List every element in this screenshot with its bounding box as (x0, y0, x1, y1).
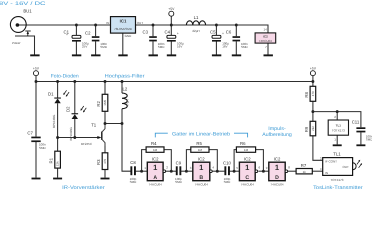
svg-text:C9: C9 (176, 161, 182, 166)
node L2 bottom (121, 122, 124, 125)
node gate D2 (73, 136, 76, 139)
svg-text:C3: C3 (143, 30, 149, 35)
svg-text:Gatter im Linear-Betrieb: Gatter im Linear-Betrieb (172, 131, 230, 137)
svg-text:SMD: SMD (175, 180, 183, 184)
svg-text:1M: 1M (198, 148, 203, 152)
wire R9 branch to TL1 IF-CONT (313, 112, 323, 161)
node TL1 power pin2 (336, 110, 339, 113)
svg-text:OUT: OUT (137, 21, 144, 25)
ground (C2) (91, 54, 100, 56)
ground (C1) (72, 54, 81, 56)
capacitor C7 (27, 130, 46, 149)
resistor R6 (236, 141, 255, 152)
wire gate A feedback R4 (142, 150, 172, 172)
svg-text:TOTX173: TOTX173 (332, 129, 345, 133)
svg-text:8V - 16V / DC: 8V - 16V / DC (0, 1, 46, 7)
svg-text:22k: 22k (56, 161, 60, 166)
wire T1 source to R3 to ground (104, 143, 106, 178)
node C2 (94, 24, 97, 27)
wire T1 drain node to L2 node (105, 123, 122, 125)
wire IC1 gnd stub (122, 33, 124, 54)
node C5 (215, 24, 218, 27)
svg-text:C2: C2 (85, 30, 91, 35)
capacitor C9 (175, 161, 183, 184)
ground (TL1 power) (333, 144, 342, 146)
wire node to TL1 power and C11 (313, 112, 361, 128)
node D2 rail (73, 80, 76, 83)
svg-text:C: C (245, 175, 249, 181)
op-amp IC2.D inverter (266, 156, 291, 186)
wire BU1 switch to ground (15, 36, 35, 55)
svg-text:1M: 1M (244, 148, 249, 152)
svg-text:R9: R9 (304, 126, 309, 132)
svg-text:IN: IN (325, 171, 328, 175)
svg-text:GND: GND (125, 34, 133, 38)
svg-text:C10: C10 (223, 161, 231, 166)
svg-text:TL1: TL1 (336, 123, 342, 127)
node rail L2 (121, 80, 124, 83)
wire main 8-16V rail top (18, 24, 111, 26)
resistor R5 (191, 141, 209, 152)
wire R7 to TL1 IN (312, 170, 322, 172)
resistor R2 (96, 94, 108, 111)
svg-text:IF CONT: IF CONT (325, 159, 337, 163)
svg-text:1k: 1k (303, 170, 307, 174)
node T1 drain (104, 122, 107, 125)
transmitter TL1 TOTX173 (320, 151, 362, 181)
svg-text:2k2: 2k2 (311, 126, 315, 131)
svg-text:A: A (153, 175, 157, 181)
svg-text:78L05A/SMD: 78L05A/SMD (114, 27, 133, 31)
svg-text:T1: T1 (91, 122, 97, 127)
svg-text:R6: R6 (240, 141, 246, 146)
svg-text:D1: D1 (48, 91, 54, 96)
svg-text:SMD: SMD (224, 180, 232, 184)
svg-text:R2: R2 (96, 100, 101, 106)
svg-text:TOTX173: TOTX173 (331, 178, 344, 182)
wire IC2 power pin7 stub (267, 43, 269, 54)
svg-text:R4: R4 (151, 141, 157, 146)
ground (IC2 power) (264, 54, 273, 56)
op-amp IC2.B inverter (190, 156, 215, 186)
node A in (140, 170, 143, 173)
svg-text:74HCU04: 74HCU04 (241, 182, 255, 186)
svg-text:R7: R7 (301, 163, 307, 168)
IC2 power block (255, 28, 276, 49)
wire C10 out to gate C (229, 170, 240, 172)
wire R8 branch (312, 82, 314, 112)
wire C5 stubs (215, 25, 217, 55)
node R8 bottom (311, 110, 314, 113)
ground (R3) (101, 178, 110, 180)
node C6 (235, 24, 238, 27)
wire C6 stubs (235, 25, 237, 55)
svg-text:Foto-Dioden: Foto-Dioden (51, 74, 79, 80)
svg-text:D: D (275, 175, 279, 181)
terminal +5V (top) (168, 7, 175, 16)
transmitter TL1 power block (328, 115, 348, 141)
resistor R4 (146, 141, 164, 152)
svg-text:IC2: IC2 (244, 156, 251, 161)
svg-text:+: + (222, 31, 224, 35)
wire C7 branch (35, 82, 37, 178)
ground (C11) (356, 144, 365, 146)
svg-text:L1: L1 (194, 15, 199, 20)
svg-text:+5V: +5V (168, 7, 175, 11)
resistor R8 (304, 86, 316, 101)
svg-text:470: 470 (103, 158, 107, 163)
svg-text:+5V: +5V (33, 66, 40, 70)
wire L2 bottom to C8 (122, 109, 131, 171)
svg-text:R3: R3 (96, 159, 101, 165)
label bracket Gatter im Linear-Betrieb (155, 133, 247, 137)
wire TL1 power pin2 stub (336, 112, 338, 120)
svg-text:IC2: IC2 (274, 156, 281, 161)
svg-text:R5: R5 (196, 141, 202, 146)
node B in (185, 170, 188, 173)
connector BU1 (10, 9, 32, 46)
wire D1 branch (57, 82, 59, 138)
node C1 (75, 24, 78, 27)
svg-text:BP104BG: BP104BG (52, 114, 56, 128)
svg-text:+: + (177, 31, 179, 35)
wire IC1 out to IC2 power corner (136, 25, 269, 33)
svg-text:BP104BG: BP104BG (69, 126, 73, 140)
svg-text:SMD: SMD (241, 45, 249, 49)
svg-text:B: B (199, 175, 203, 181)
svg-text:14: 14 (263, 28, 267, 32)
svg-text:47µH: 47µH (126, 99, 130, 106)
ground (R1) (53, 178, 62, 180)
wire gate B feedback R5 (186, 150, 217, 172)
svg-text:470: 470 (311, 91, 315, 96)
svg-text:TL1: TL1 (333, 151, 341, 156)
wire C4 stubs + 5V stub (170, 16, 172, 54)
svg-text:D2: D2 (66, 106, 71, 112)
transistor T1 (81, 122, 105, 146)
wire R2 branch (104, 82, 106, 124)
wire C3 stubs (152, 25, 154, 55)
photodiode D1 (48, 90, 69, 128)
svg-text:Hochpass-Filter: Hochpass-Filter (105, 74, 145, 80)
svg-text:SMD: SMD (366, 138, 372, 142)
wire C9 out to gate B (181, 170, 193, 172)
inductor L1 (186, 15, 205, 33)
svg-text:IC1: IC1 (120, 19, 127, 24)
regulator IC1 (106, 17, 143, 39)
svg-text:IC2: IC2 (152, 156, 159, 161)
resistor R3 (96, 153, 108, 170)
svg-text:74HCU04: 74HCU04 (270, 182, 284, 186)
svg-text:74HCU04: 74HCU04 (259, 39, 273, 43)
capacitor C8 (130, 160, 138, 184)
svg-text:SMD: SMD (130, 180, 138, 184)
resistor R9 (304, 121, 316, 136)
node C in (233, 170, 236, 173)
svg-text:BU1: BU1 (23, 9, 32, 14)
svg-text:OUT: OUT (342, 165, 349, 169)
op-amp IC2.A inverter (144, 156, 168, 186)
wire C11 to ground (360, 132, 362, 144)
svg-text:1M: 1M (153, 148, 158, 152)
svg-text:16V: 16V (177, 45, 182, 49)
capacitor C11 (352, 119, 372, 141)
ground (C4) (167, 54, 176, 56)
svg-text:C8: C8 (130, 160, 136, 165)
ground (C5) (212, 54, 221, 56)
ground (IC1) (118, 54, 127, 56)
wire D2 branch (74, 82, 76, 138)
svg-text:25V: 25V (82, 45, 87, 49)
photodiode D2 (66, 106, 87, 141)
wire gate B out to C10 (211, 170, 224, 172)
svg-text:SMD: SMD (100, 45, 108, 49)
capacitor C3 (143, 30, 166, 49)
svg-text:R1: R1 (49, 157, 54, 163)
node A out (170, 170, 173, 173)
node rail R2 (104, 80, 107, 83)
ground (C3) (149, 54, 158, 56)
svg-text:Aufbereitung: Aufbereitung (262, 132, 292, 138)
wire gate row to T1 (58, 137, 99, 139)
svg-text:C6: C6 (226, 30, 232, 35)
wire R1 branch to ground (57, 138, 59, 178)
node C out / D in (262, 170, 265, 173)
node gate D1/R1 (56, 136, 59, 139)
resistor R1 (49, 151, 61, 168)
svg-text:SMD: SMD (158, 45, 166, 49)
svg-text:1M5: 1M5 (103, 100, 107, 106)
wire C2 stubs (95, 25, 97, 55)
capacitor C6 (226, 30, 249, 49)
ground (BU1) (30, 54, 39, 56)
node B out (216, 170, 219, 173)
svg-text:22µH: 22µH (192, 29, 199, 33)
capacitor C10 (223, 161, 231, 184)
wire +5V rail middle (36, 76, 313, 82)
svg-text:IN: IN (106, 21, 109, 25)
wire TL1 power pin1 to ground (336, 135, 338, 144)
svg-text:C1: C1 (64, 29, 70, 34)
wire gate C out to gate D (258, 170, 268, 172)
node C3 (152, 24, 155, 27)
capacitor C1 (64, 29, 90, 48)
svg-text:C11: C11 (352, 119, 360, 124)
svg-text:Power: Power (12, 41, 22, 45)
svg-text:C4: C4 (165, 29, 171, 34)
node C4 / +5V (170, 24, 173, 27)
svg-text:C7: C7 (27, 130, 33, 135)
svg-text:BF245C: BF245C (81, 142, 93, 146)
capacitor C5 (210, 30, 229, 49)
wire C1 stubs (75, 25, 77, 55)
wire C8 out to gate A (135, 170, 147, 172)
capacitor C4 (165, 29, 185, 48)
op-amp IC2.C inverter (236, 156, 260, 186)
wire L2 top stub (121, 82, 123, 94)
svg-text:SMD: SMD (39, 146, 47, 150)
inductor L2 (122, 87, 130, 109)
node D1 rail (56, 80, 59, 83)
ground (C7) (32, 178, 41, 180)
svg-text:L2: L2 (123, 87, 128, 92)
node rail right end (311, 80, 314, 83)
svg-text:16V: 16V (222, 45, 227, 49)
terminal +5V (right) (310, 66, 317, 75)
wire gate D out to R7 (288, 170, 296, 172)
svg-text:+5V: +5V (310, 66, 317, 70)
svg-text:74HCU04: 74HCU04 (149, 182, 163, 186)
wire gate A out to C9 (166, 170, 176, 172)
terminal +5V (left mid) (33, 66, 40, 75)
svg-text:C5: C5 (210, 30, 216, 35)
capacitor C2 (85, 30, 108, 49)
svg-text:74HCU04: 74HCU04 (195, 182, 209, 186)
svg-text:Impuls-: Impuls- (268, 126, 286, 132)
svg-text:IR-Vorverstärker: IR-Vorverstärker (62, 185, 105, 191)
svg-text:R8: R8 (304, 91, 309, 97)
resistor R7 (296, 163, 312, 174)
node rail left (35, 80, 38, 83)
ground (C6) (232, 54, 241, 56)
svg-text:TosLink-Transmitter: TosLink-Transmitter (313, 185, 363, 191)
wire gate C feedback R6 (234, 150, 263, 172)
svg-text:IC2: IC2 (198, 156, 205, 161)
